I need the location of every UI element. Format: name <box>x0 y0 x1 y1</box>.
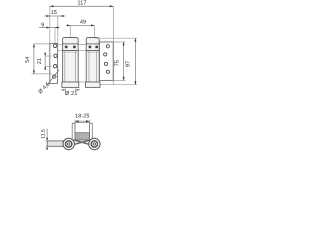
leaf screw holes <box>53 44 56 47</box>
right plate (door leaf) <box>99 42 113 80</box>
leader and label diameter 4,5 <box>38 70 59 96</box>
collar with holes <box>63 44 79 51</box>
barrel 1 <box>62 38 79 88</box>
door throat (open section) <box>75 123 90 141</box>
svg-text:9: 9 <box>41 23 44 29</box>
extension line hole axis x=55 <box>54 28 56 45</box>
collar with holes <box>86 44 99 51</box>
svg-text:75: 75 <box>115 60 121 66</box>
extension line 97 bottom <box>99 84 137 86</box>
svg-text:21: 21 <box>37 58 43 64</box>
strap band right-to-left ring <box>69 140 91 146</box>
dimension 54 <box>25 44 52 74</box>
left mounting arm <box>47 141 63 146</box>
body <box>63 51 79 82</box>
extension line right x=113.4 (117 dim) <box>112 6 114 84</box>
dimension 15 <box>45 10 66 17</box>
svg-text:49: 49 <box>80 20 86 26</box>
dimension 75 <box>115 42 125 80</box>
bottom collar <box>62 82 79 87</box>
dimension 49 <box>66 20 95 39</box>
dimension 11,5 <box>41 129 49 150</box>
dimension 9 <box>39 23 60 29</box>
dimension 117 <box>50 1 114 8</box>
knuckle web between barrels <box>78 44 86 46</box>
svg-text:11,5: 11,5 <box>41 129 47 139</box>
svg-text:97: 97 <box>125 61 132 67</box>
svg-text:117: 117 <box>77 1 86 7</box>
barrel 2 <box>86 38 101 88</box>
right clamp plate <box>90 123 93 140</box>
knuckle web leaf to barrel1 <box>58 44 63 46</box>
extension line 75 top (plate top) <box>113 41 125 43</box>
dimension 18-25 arrows <box>75 120 90 123</box>
svg-text:18-25: 18-25 <box>75 113 89 119</box>
dimension 97 <box>125 38 137 84</box>
cap <box>86 38 99 44</box>
cap <box>63 38 79 44</box>
plate screw holes <box>106 45 109 48</box>
extension line 75 bottom (plate bottom) <box>113 79 125 81</box>
dimension 21 <box>37 53 52 70</box>
extension line left face x=50 <box>49 6 51 43</box>
left clamp plate <box>72 123 75 140</box>
extension line 97 top <box>95 37 137 39</box>
body <box>86 51 99 82</box>
svg-text:15: 15 <box>51 10 57 16</box>
left barrel ring <box>63 138 74 149</box>
strap band left-to-right ring <box>74 140 95 146</box>
svg-text:Ø 21: Ø 21 <box>65 90 78 97</box>
dimension diameter 21 <box>61 87 80 97</box>
door panel cross-section (crosshatched) <box>75 132 90 139</box>
bottom collar <box>86 82 101 87</box>
extension line leaf edge x=58 <box>57 16 59 44</box>
right barrel ring <box>89 138 100 149</box>
svg-text:54: 54 <box>25 57 31 63</box>
left leaf (frame leaf) <box>50 43 58 83</box>
